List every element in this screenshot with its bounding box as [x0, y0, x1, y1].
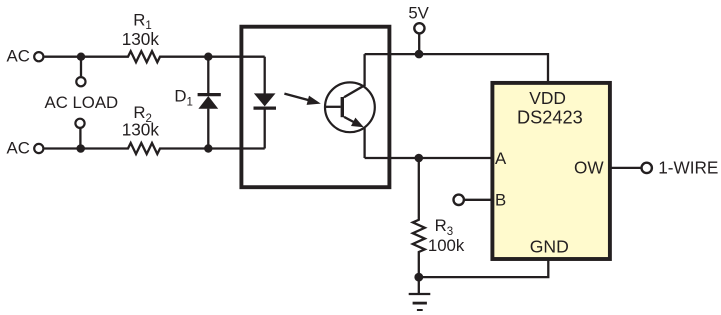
svg-text:OW: OW [574, 158, 604, 178]
svg-text:B: B [495, 191, 506, 210]
svg-text:1-WIRE: 1-WIRE [658, 157, 718, 177]
svg-text:130k: 130k [122, 29, 160, 49]
svg-text:R3: R3 [435, 216, 454, 238]
svg-text:100k: 100k [428, 236, 465, 255]
svg-text:130k: 130k [122, 120, 160, 140]
svg-text:GND: GND [530, 236, 569, 256]
svg-text:AC LOAD: AC LOAD [45, 93, 119, 112]
svg-text:VDD: VDD [529, 88, 566, 108]
svg-text:D1: D1 [174, 87, 193, 109]
svg-text:A: A [495, 149, 507, 168]
svg-text:AC: AC [7, 138, 30, 157]
svg-text:DS2423: DS2423 [517, 108, 583, 128]
svg-text:AC: AC [7, 47, 30, 66]
svg-text:5V: 5V [408, 3, 429, 22]
